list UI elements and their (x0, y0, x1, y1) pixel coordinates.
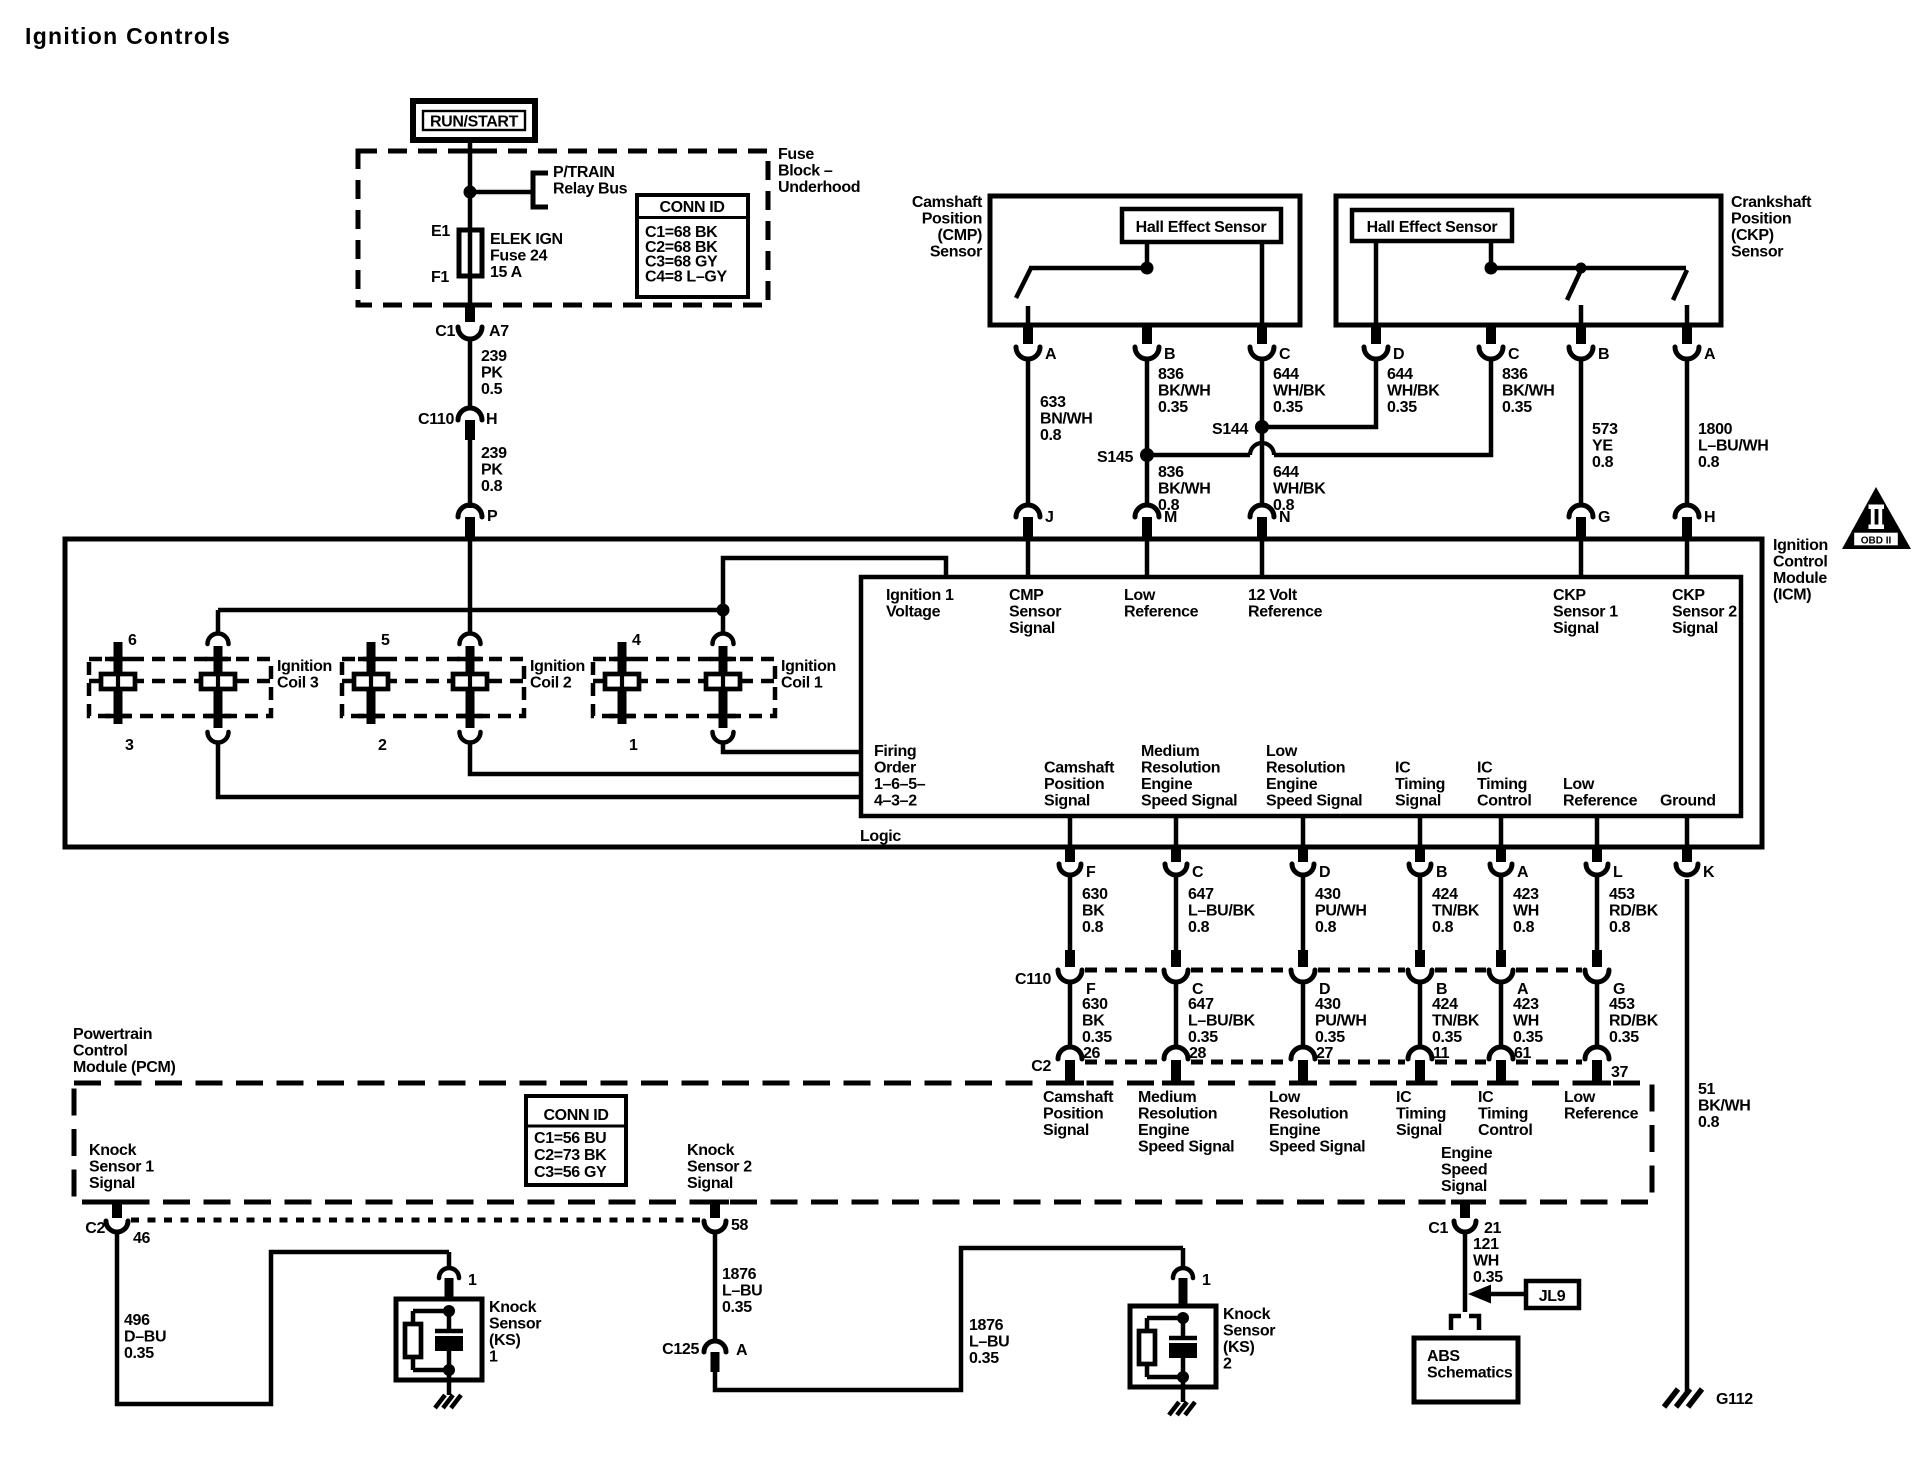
fuse element wire (468, 230, 473, 276)
svg-text:C1: C1 (435, 323, 455, 340)
svg-text:C1=56 BUC2=73 BKC3=56 GY: C1=56 BUC2=73 BKC3=56 GY (534, 1130, 607, 1181)
PCM box edge tick at pin 58 (701, 1200, 729, 1205)
sensor connector terminal D at x=1376 (1364, 347, 1388, 359)
PCM pin 46 stub (112, 1202, 122, 1218)
CKP switch 1 output stub B (1579, 305, 1584, 325)
wire 836 BK/WH 0.35 (CMP B) (1145, 359, 1150, 449)
fuse block underhood dashed box (358, 151, 768, 305)
C110 terminal D (1291, 970, 1315, 982)
KS2 pin 1 stub (1179, 1278, 1188, 1306)
svg-text:3: 3 (125, 737, 134, 754)
coil 2 bottom pin stub (466, 689, 475, 728)
svg-text:A: A (1704, 346, 1716, 363)
wire logic output D to ICM edge (1301, 816, 1306, 847)
coil 1 primary wire (721, 674, 725, 689)
PCM box edge tick at x=1176 (1162, 1081, 1190, 1086)
svg-text:A7: A7 (489, 323, 509, 340)
ICM connector terminal N (1250, 505, 1274, 517)
sensor connector pin A stub at x=1028 (1023, 325, 1033, 344)
wire P into ICM to coil bus (468, 539, 473, 633)
C110 connector dashed body (1085, 968, 1161, 973)
PCM box edge tick at x=1501 (1487, 1081, 1515, 1086)
wire ICM pin J/CMP into logic (1026, 539, 1031, 577)
C110 pin C stub (1171, 950, 1181, 967)
C110 terminal A (1489, 970, 1513, 982)
wire ICM pin H/CKP2 into logic (1685, 539, 1690, 577)
svg-text:H: H (486, 411, 497, 428)
svg-text:Ground: Ground (1660, 793, 1716, 810)
C2 terminal pin at C column (1164, 1047, 1188, 1059)
bus drop to coil 1 (721, 610, 726, 634)
ICM connector pin N stub (1257, 517, 1267, 539)
svg-text:C1: C1 (1428, 1220, 1448, 1237)
sensor connector pin C stub at x=1262 (1257, 325, 1267, 344)
wire 630 F 0.8 (1068, 875, 1073, 950)
svg-text:11: 11 (1433, 1045, 1450, 1062)
wire 453 G 0.35 (1595, 982, 1600, 1046)
wire CMP hall to switch (1145, 242, 1150, 268)
svg-text:A: A (736, 1342, 748, 1359)
PCM box edge tick at x=1303 (1289, 1081, 1317, 1086)
svg-text:L: L (1613, 864, 1623, 881)
coil 2 box edge tick bottom-right (457, 714, 483, 719)
PCM connector terminal 58 (704, 1221, 726, 1232)
KS1 ground lead (447, 1370, 452, 1395)
PCM connector C1 terminal 21 (1454, 1221, 1476, 1232)
svg-text:C2: C2 (85, 1220, 105, 1237)
coil 2 box edge tick top-left (358, 657, 384, 662)
wire logic output B to ICM edge (1418, 816, 1423, 847)
wire 644 WH/BK 0.8 (1260, 427, 1265, 505)
coil 1 pin 4 stub (618, 642, 627, 674)
wire 430 D 0.8 (1301, 875, 1306, 950)
fuse F24 ELEK IGN body (459, 230, 482, 276)
KS1 piezo lead bottom (447, 1351, 452, 1370)
ICM output pin K stub (1682, 847, 1692, 862)
svg-text:C2: C2 (1031, 1058, 1051, 1075)
RUN/START box inner border (423, 111, 525, 130)
CKP switch 2 output stub A (1685, 305, 1690, 325)
ICM output terminal D (1292, 864, 1314, 875)
wire 51 BK/WH 0.8 to G112 (1685, 879, 1690, 1392)
svg-text:S144: S144 (1212, 421, 1248, 438)
JL9 option box (1526, 1281, 1579, 1308)
svg-text:F: F (1086, 864, 1096, 881)
wire coil 3 to logic firing order (218, 741, 861, 797)
KS2 piezo element (1169, 1343, 1197, 1358)
svg-text:E1: E1 (431, 223, 450, 240)
KS1 branch wire top (413, 1309, 449, 1314)
ICM connector pin H stub (1682, 517, 1692, 539)
splice S145 (1140, 448, 1154, 462)
coil 1 box edge tick bottom-left (609, 714, 635, 719)
connector C1 terminal A7 (458, 327, 482, 339)
wire 836 BK/WH 0.8 (1145, 455, 1150, 505)
svg-text:A: A (1045, 346, 1057, 363)
C2 terminal pin at F column (1058, 1047, 1082, 1059)
wire logic output C to ICM edge (1174, 816, 1179, 847)
wire 644 WH/BK 0.35 (D to S144) (1268, 359, 1376, 427)
CONN ID header rule (PCM) (526, 1125, 626, 1128)
coil 3 primary winding (201, 674, 235, 689)
ICM connector terminal H (1675, 505, 1699, 517)
RUN/START box outer border (413, 101, 535, 140)
C110 pin D stub (1298, 950, 1308, 967)
ignition coil 2 dashed outline (342, 659, 524, 716)
wire 630 F 0.35 (1068, 982, 1073, 1046)
wire into KS1 pin 1 (447, 1252, 452, 1268)
KS2 resistor (1139, 1331, 1155, 1364)
wire 424 B 0.8 (1418, 875, 1423, 950)
ground symbol KS1 (435, 1395, 445, 1408)
svg-text:A: A (1517, 864, 1529, 881)
svg-text:Ignition Controls: Ignition Controls (25, 23, 231, 49)
coil 3 bottom connector (208, 732, 229, 743)
ignition coil 3 dashed outline (89, 659, 271, 716)
CMP switch common wire (1029, 266, 1147, 271)
svg-text:Hall Effect Sensor: Hall Effect Sensor (1136, 219, 1267, 236)
connector C110 pin H male stub (465, 420, 475, 440)
connector C1 pin A7 male stub (465, 303, 475, 322)
junction dot ignition feed (717, 604, 730, 617)
svg-text:26: 26 (1083, 1045, 1101, 1062)
KS2 piezo lead top (1181, 1318, 1186, 1338)
coil 2 secondary wire (369, 674, 373, 689)
ICM connector pin G stub (1576, 517, 1586, 539)
CKP switch 2 blade (1673, 270, 1687, 300)
svg-text:27: 27 (1316, 1045, 1334, 1062)
coil 2 top pin stub (466, 646, 475, 674)
ignition coil 1 internal dashed divider (593, 679, 775, 684)
svg-text:6: 6 (128, 632, 137, 649)
coil 1 box edge tick top-right (710, 657, 736, 662)
sensor connector pin B stub at x=1147 (1142, 325, 1152, 344)
ignition coil 2 internal dashed divider (342, 679, 524, 684)
ICM output terminal C (1165, 864, 1187, 875)
junction dot CKP switch 1 (1576, 263, 1587, 274)
svg-text:G112: G112 (1716, 1391, 1753, 1408)
wire 647 C 0.8 (1174, 875, 1179, 950)
sensor connector terminal A at x=1028 (1016, 347, 1040, 359)
svg-text:JL9: JL9 (1539, 1288, 1566, 1305)
wire logic output K to ICM edge (1685, 816, 1690, 847)
wire ICM pin M/low ref into logic (1145, 539, 1150, 577)
wire 239 PK 0.5 (468, 339, 473, 409)
splice S144 (1255, 420, 1269, 434)
Ignition Control Module (ICM) box (65, 539, 1762, 847)
coil 3 box edge tick top-left (105, 657, 131, 662)
C110 pin B stub (1415, 950, 1425, 967)
ICM output pin L stub (1592, 847, 1602, 862)
svg-text:S145: S145 (1097, 449, 1133, 466)
svg-text:K: K (1703, 864, 1715, 881)
PCM connector C2 terminal 46 (106, 1221, 128, 1232)
sensor connector terminal C at x=1262 (1250, 347, 1274, 359)
wire CMP hall output C (1260, 242, 1265, 325)
sensor connector pin B stub at x=1581 (1576, 325, 1586, 344)
KS2 connector terminal 1 (1173, 1268, 1193, 1278)
C110 terminal G (1585, 970, 1609, 982)
KS1 connector terminal 1 (439, 1268, 459, 1278)
C110 pin A stub (1496, 950, 1506, 967)
svg-text:H: H (1704, 509, 1715, 526)
wire CKP hall pin D (1374, 241, 1379, 325)
svg-text:46: 46 (133, 1230, 151, 1247)
sensor connector terminal B at x=1147 (1135, 347, 1159, 359)
C110 terminal B (1408, 970, 1432, 982)
fuse box edge tick at output wire (456, 303, 484, 308)
svg-text:58: 58 (731, 1217, 749, 1234)
svg-text:1: 1 (1202, 1272, 1211, 1289)
ignition coil 1 dashed outline (593, 659, 775, 716)
PCM box edge tick at pin 46 (103, 1200, 131, 1205)
KS1 resistor lead top (411, 1311, 416, 1324)
ICM output terminal B (1409, 864, 1431, 875)
ICM connector terminal M (1135, 505, 1159, 517)
svg-text:21: 21 (1484, 1220, 1502, 1237)
coil 1 bottom connector (713, 732, 734, 743)
P/TRAIN relay bus bracket (533, 173, 548, 207)
coil 1 secondary winding (605, 674, 639, 689)
C110 terminal F (1058, 970, 1082, 982)
ICM internal Logic box (861, 577, 1741, 816)
off-page connector fork to ABS (1451, 1316, 1479, 1330)
KS2 internal bottom junction (1177, 1371, 1189, 1383)
svg-text:C: C (1192, 864, 1204, 881)
ground symbol G112 (1664, 1389, 1678, 1407)
svg-text:C1=68 BKC2=68 BKC3=68 GYC4=8 L: C1=68 BKC2=68 BKC3=68 GYC4=8 L–GY (645, 224, 727, 285)
ignition feed bus wire (218, 608, 723, 613)
ICM output pin C stub (1171, 847, 1181, 862)
C125 pin A stub (711, 1352, 720, 1372)
KS1 resistor lead bottom (411, 1357, 416, 1370)
wire into KS2 pin 1 (1181, 1248, 1186, 1268)
Powertrain Control Module (PCM) dashed box (74, 1083, 1652, 1202)
CMP switch blade (1016, 268, 1031, 298)
connector terminal P at ICM (458, 505, 482, 517)
coil 3 top connector (208, 634, 229, 645)
PCM box edge tick at x=1597 (1583, 1081, 1611, 1086)
wire 423 A 0.35 (1499, 982, 1504, 1046)
svg-text:G: G (1598, 509, 1610, 526)
svg-text:5: 5 (381, 632, 390, 649)
C110 pin F stub (1065, 950, 1075, 967)
coil 3 box edge tick top-right (205, 657, 231, 662)
coil 3 primary wire (216, 674, 220, 689)
PCM pin 58 stub (710, 1202, 720, 1218)
wire 430 D 0.35 (1301, 982, 1306, 1046)
wire 239 PK 0.8 (468, 440, 473, 508)
wire RUN/START to fuse E1 (468, 137, 473, 230)
wire 423 A 0.8 (1499, 875, 1504, 950)
coil 3 pin 3 stub (114, 689, 123, 724)
svg-text:RUN/START: RUN/START (430, 114, 519, 131)
C110 pin G stub (1592, 950, 1602, 967)
C2 terminal pin at G column (1585, 1047, 1609, 1059)
svg-text:C: C (1508, 346, 1520, 363)
C110 terminal C (1164, 970, 1188, 982)
PCM pin 21 stub (1460, 1202, 1470, 1218)
coil 2 top connector (460, 634, 481, 645)
KS1 pin 1 stub (445, 1278, 454, 1299)
svg-text:4: 4 (632, 632, 641, 649)
KS1 internal top junction (443, 1305, 455, 1317)
junction dot P/TRAIN tap (464, 186, 477, 199)
KS2 resistor lead top (1145, 1318, 1150, 1331)
wire bus to Ignition 1 Voltage input (723, 558, 946, 610)
wire 647 C 0.35 (1174, 982, 1179, 1046)
svg-text:P: P (487, 508, 498, 525)
ICM output terminal F (1059, 864, 1081, 875)
coil 2 bottom connector (460, 732, 481, 743)
Knock Sensor 2 box (1130, 1306, 1216, 1387)
PCM box edge tick at x=1420 (1406, 1081, 1434, 1086)
bus drop to coil 3 (216, 610, 221, 634)
JL9 arrow shaft (1491, 1292, 1526, 1297)
svg-text:2: 2 (378, 737, 387, 754)
svg-text:Hall Effect Sensor: Hall Effect Sensor (1367, 219, 1498, 236)
CONN ID header rule (fuse block) (637, 216, 748, 219)
coil 3 box edge tick bottom-right (205, 714, 231, 719)
coil 2 pin 5 stub (367, 642, 376, 674)
connector C125 terminal A (704, 1341, 726, 1352)
ICM output pin D stub (1298, 847, 1308, 862)
wire coil 1 to logic firing order (723, 741, 861, 752)
wire logic output F to ICM edge (1068, 816, 1073, 847)
wire 496 D-BU 0.35 route (117, 1233, 449, 1404)
svg-text:CONN ID: CONN ID (543, 1107, 608, 1124)
C2 pin stub at C column (1171, 1060, 1181, 1083)
Camshaft Position (CMP) Sensor box (990, 196, 1300, 325)
svg-text:M: M (1164, 509, 1177, 526)
junction dot CKP common (1485, 262, 1498, 275)
PCM box edge tick at pin 21 (1451, 1200, 1479, 1205)
ICM output terminal K (1676, 864, 1698, 875)
KS1 piezo lead top (447, 1311, 452, 1331)
svg-text:C: C (1279, 346, 1291, 363)
wire 1876 L-BU 0.35 (upper) (713, 1233, 718, 1340)
PCM box edge tick at x=1070 (1056, 1081, 1084, 1086)
C2 pin stub at B column (1415, 1060, 1425, 1083)
coil 2 primary winding (453, 674, 487, 689)
CKP switch common wire (1491, 266, 1686, 271)
svg-text:37: 37 (1611, 1064, 1629, 1081)
coil 3 secondary wire (116, 674, 120, 689)
wire logic output L to ICM edge (1595, 816, 1600, 847)
wire hop over N wire (1250, 443, 1274, 455)
wire fuse F1 to connector C1 (468, 276, 473, 303)
sensor connector pin C stub at x=1491 (1486, 325, 1496, 344)
svg-text:61: 61 (1514, 1045, 1532, 1062)
ICM output terminal A (1490, 864, 1512, 875)
svg-text:B: B (1598, 346, 1609, 363)
fuse box edge tick at feed wire (456, 149, 484, 154)
connector pin P male stub (465, 517, 475, 539)
wire to P/TRAIN relay bus (470, 190, 533, 195)
KS1 internal bottom junction (443, 1364, 455, 1376)
sensor connector pin A stub at x=1687 (1682, 325, 1692, 344)
coil 3 top pin stub (214, 646, 223, 674)
CKP Hall Effect Sensor box (1352, 210, 1512, 241)
C2 connector dashed body (1085, 1060, 1161, 1065)
wire logic output A to ICM edge (1499, 816, 1504, 847)
coil 1 box edge tick bottom-right (710, 714, 736, 719)
svg-text:1: 1 (629, 737, 638, 754)
C2 pin stub at F column (1065, 1060, 1075, 1083)
ICM connector pin J stub (1023, 517, 1033, 539)
wire ICM pin G/CKP1 into logic (1579, 539, 1584, 577)
coil 2 primary wire (468, 674, 472, 689)
CMP switch output stub A (1026, 306, 1031, 325)
junction dot CMP switch (1141, 262, 1154, 275)
KS2 resistor lead bottom (1145, 1364, 1150, 1377)
sensor connector terminal C at x=1491 (1479, 347, 1503, 359)
coil 1 box edge tick top-left (609, 657, 635, 662)
coil 1 bottom pin stub (719, 689, 728, 728)
coil 3 bottom pin stub (214, 689, 223, 728)
KS2 branch wire top (1147, 1316, 1183, 1321)
sensor connector terminal A at x=1687 (1675, 347, 1699, 359)
KS2 ground lead (1181, 1377, 1186, 1402)
svg-text:OBD II: OBD II (1861, 536, 1892, 547)
coil 3 box edge tick bottom-left (105, 714, 131, 719)
CMP Hall Effect Sensor box (1122, 209, 1281, 242)
C2 terminal pin at A column (1489, 1047, 1513, 1059)
ICM output pin F stub (1065, 847, 1075, 862)
wire 633 BN/WH 0.8 (1026, 359, 1031, 505)
C2 terminal pin at B column (1408, 1047, 1432, 1059)
wire 453 L 0.8 (1595, 875, 1600, 950)
coil 1 primary winding (706, 674, 740, 689)
coil 2 box edge tick top-right (457, 657, 483, 662)
coil 2 secondary winding (354, 674, 388, 689)
coil 1 pin 1 stub (618, 689, 627, 724)
svg-text:CONN ID: CONN ID (659, 199, 724, 216)
sensor connector pin D stub at x=1376 (1371, 325, 1381, 344)
KS2 internal top junction (1177, 1312, 1189, 1324)
svg-text:C110: C110 (1015, 971, 1051, 988)
wire 1800 L-BU/WH 0.8 (1685, 359, 1690, 505)
svg-text:F1: F1 (431, 269, 449, 286)
KS2 branch wire bottom (1147, 1375, 1183, 1380)
KS2 piezo top plate (1169, 1336, 1197, 1341)
ICM connector terminal J (1016, 505, 1040, 517)
coil 1 secondary wire (620, 674, 624, 689)
svg-text:C125: C125 (662, 1341, 699, 1358)
wire 644 WH/BK 0.35 (CMP C) (1260, 359, 1265, 421)
wire CKP hall to switches (1489, 241, 1494, 268)
Crankshaft Position (CKP) Sensor box (1336, 196, 1721, 325)
svg-text:N: N (1279, 509, 1290, 526)
ICM connector pin M stub (1142, 517, 1152, 539)
C2 pin stub at A column (1496, 1060, 1506, 1083)
svg-text:EngineSpeedSignal: EngineSpeedSignal (1441, 1145, 1493, 1195)
svg-text:28: 28 (1189, 1045, 1207, 1062)
svg-text:D: D (1319, 864, 1330, 881)
C2 terminal pin at D column (1291, 1047, 1315, 1059)
CONN ID table (PCM) (526, 1096, 626, 1185)
wire 424 B 0.35 (1418, 982, 1423, 1046)
svg-text:1: 1 (468, 1272, 477, 1289)
C2 pin stub at D column (1298, 1060, 1308, 1083)
coil 1 top pin stub (719, 646, 728, 674)
wire 573 YE 0.8 (1579, 359, 1584, 505)
wire 121 WH 0.35 (1463, 1233, 1468, 1312)
svg-text:Logic: Logic (860, 828, 901, 845)
KS1 piezo top plate (435, 1329, 463, 1334)
wire coil 2 to logic firing order (470, 741, 861, 774)
svg-text:B: B (1164, 346, 1175, 363)
